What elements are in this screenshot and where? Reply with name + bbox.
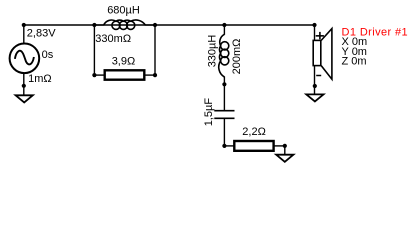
junction dot: source bottom: [22, 84, 26, 88]
svg-text:680µH: 680µH: [107, 5, 140, 17]
junction dot: R1 right: [153, 73, 157, 77]
junction dot: source top node: [22, 23, 26, 27]
wire: R1 right lead: [144, 74, 155, 76]
junction dot: R2 ground node: [283, 144, 287, 148]
resistor R1 3,9 Ohm body: [105, 70, 145, 79]
ground symbol: below speaker: [306, 94, 323, 101]
svg-text:0s: 0s: [42, 49, 54, 61]
svg-text:330mΩ: 330mΩ: [95, 33, 131, 45]
wire: C1 to R2 node: [223, 119, 225, 146]
speaker minus terminal mark: [316, 75, 321, 77]
junction dot: speaker bottom: [313, 84, 317, 88]
junction dot: middle branch top node: [222, 23, 226, 27]
wire: source bottom lead: [23, 73, 25, 96]
junction dot: speaker top corner: [312, 23, 316, 27]
capacitor C1 1,5uF plates: [214, 111, 234, 119]
junction dot: R1 left: [92, 73, 96, 77]
junction dot: L1 right node: [153, 23, 157, 27]
junction dot: C1/R2 node: [222, 144, 226, 148]
svg-text:1mΩ: 1mΩ: [28, 73, 52, 85]
wire: source top lead: [23, 25, 25, 45]
svg-text:2,2Ω: 2,2Ω: [242, 126, 266, 138]
wire: R1 left lead: [94, 74, 105, 76]
wire: R2 left lead: [224, 145, 235, 147]
svg-text:200mΩ: 200mΩ: [231, 39, 243, 75]
svg-text:3,9Ω: 3,9Ω: [112, 55, 136, 67]
wire: speaker top lead: [314, 25, 316, 41]
inductor L1 680uH horizontal coil: [94, 20, 155, 29]
junction dot: L2/C1 node: [222, 82, 226, 86]
wire: left drop to R1: [93, 25, 95, 75]
voltage source V1 sine generator: [10, 44, 40, 74]
ground symbol: below source: [16, 95, 33, 102]
wire: speaker bottom lead: [314, 66, 316, 95]
wire: main top rail: [24, 24, 315, 26]
wire: stem to ground below R2: [284, 146, 286, 156]
wire: right drop to R1: [154, 25, 156, 75]
speaker driver D1 symbol: [313, 29, 332, 80]
svg-text:Z 0m: Z 0m: [342, 56, 367, 68]
wire: R2 right lead: [273, 145, 285, 147]
wire: L2 to C1: [223, 84, 225, 110]
speaker plus terminal mark: [316, 32, 324, 39]
inductor L2 330uH vertical coil: [219, 25, 229, 84]
junction dot: L1 left node: [92, 23, 96, 27]
svg-text:330µH: 330µH: [207, 35, 219, 68]
ground symbol: below R2: [276, 155, 293, 162]
resistor R2 2,2 Ohm body: [234, 141, 273, 151]
svg-text:1,5µF: 1,5µF: [203, 98, 215, 127]
svg-text:2,83V: 2,83V: [27, 27, 56, 39]
